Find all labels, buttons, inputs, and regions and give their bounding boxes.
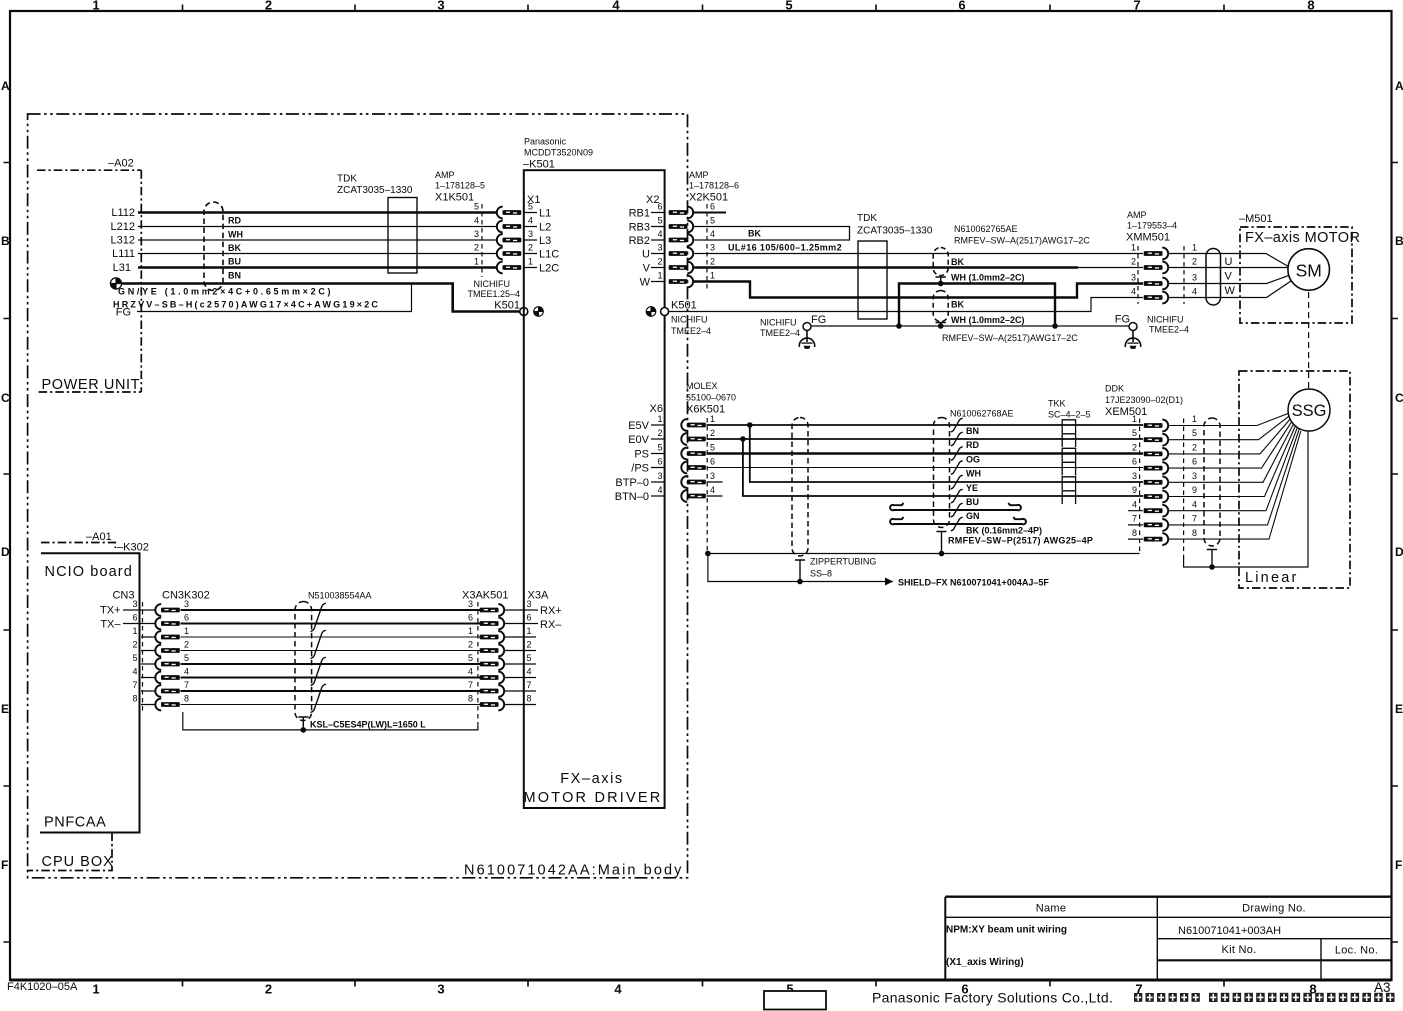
terminal K501 ring left — [520, 308, 528, 316]
connector XEM501 pin contacts — [1144, 420, 1169, 432]
svg-text:2: 2 — [132, 640, 137, 650]
company name japanese (simulated glyph blocks) — [1134, 993, 1395, 1002]
svg-text:4: 4 — [710, 485, 715, 495]
svg-text:5: 5 — [468, 653, 473, 663]
svg-text:N610071042AA:Main body: N610071042AA:Main body — [464, 863, 684, 879]
X6 pin numbers — [657, 414, 662, 495]
junction dot — [301, 727, 307, 733]
svg-text:TDK: TDK — [337, 174, 357, 185]
LAN shield drain — [298, 717, 308, 730]
svg-text:1: 1 — [468, 626, 473, 636]
svg-text:3: 3 — [657, 471, 662, 481]
svg-text:SHIELD–FX N610071041+004AJ–5F: SHIELD–FX N610071041+004AJ–5F — [898, 578, 1049, 588]
svg-text:6: 6 — [468, 613, 473, 623]
svg-text:L3: L3 — [539, 235, 551, 247]
svg-text:DDK: DDK — [1105, 384, 1124, 394]
ground symbol right FG — [1125, 331, 1140, 349]
CN3K302 pin numbers — [184, 599, 189, 704]
svg-text:A3: A3 — [1374, 980, 1391, 995]
connector CN3K302 pin contacts — [155, 604, 180, 616]
svg-text:V: V — [1225, 271, 1233, 283]
svg-text:6: 6 — [710, 457, 715, 467]
svg-text:5: 5 — [710, 216, 715, 226]
svg-text:PNFCAA: PNFCAA — [44, 815, 106, 831]
svg-text:8: 8 — [1192, 528, 1197, 538]
wire L312 — [138, 239, 497, 241]
wire GN/YE earth — [122, 284, 523, 312]
svg-text:HRZVV–SB–H(c2570)AWG17×4C+AWG1: HRZVV–SB–H(c2570)AWG17×4C+AWG19×2C — [113, 300, 380, 310]
svg-text:SM: SM — [1296, 261, 1322, 281]
svg-text:–A02: –A02 — [108, 158, 134, 170]
bottom small revision box — [764, 991, 826, 1010]
svg-text:8: 8 — [468, 694, 473, 704]
svg-text:SC–4–2–5: SC–4–2–5 — [1048, 410, 1091, 420]
CPU BOX boundary — [28, 833, 112, 871]
svg-text:7: 7 — [1192, 514, 1197, 524]
svg-text:4: 4 — [1192, 287, 1197, 297]
cable shield drain UV — [936, 277, 946, 284]
svg-text:WH (1.0mm2–2C): WH (1.0mm2–2C) — [951, 315, 1025, 325]
svg-text:4: 4 — [527, 667, 532, 677]
svg-text:AMP: AMP — [435, 170, 455, 180]
svg-text:6: 6 — [184, 613, 189, 623]
X6 pin names — [615, 420, 650, 503]
motor cable sheath oval — [1206, 249, 1221, 306]
X3A stubs — [505, 610, 539, 705]
svg-text:2: 2 — [710, 257, 715, 267]
svg-text:3: 3 — [527, 599, 532, 609]
svg-text:Kit No.: Kit No. — [1221, 944, 1256, 956]
svg-text:FG: FG — [811, 314, 826, 326]
X3AK501 pin numbers — [468, 599, 473, 704]
svg-text:F: F — [1395, 858, 1402, 872]
svg-text:5: 5 — [132, 653, 137, 663]
svg-text:E0V: E0V — [628, 434, 649, 446]
LAN wire 8 — [181, 704, 481, 706]
svg-text:L312: L312 — [111, 235, 135, 247]
svg-text:UL#16 105/600–1.25mm2: UL#16 105/600–1.25mm2 — [728, 243, 842, 253]
svg-text:6: 6 — [710, 202, 715, 212]
connector XMM501 boundary right — [1183, 246, 1185, 304]
svg-text:L1: L1 — [539, 208, 551, 220]
svg-text:L31: L31 — [113, 262, 131, 274]
svg-text:BK: BK — [951, 300, 964, 310]
wire BTN-0 stub — [707, 495, 723, 497]
svg-text:2: 2 — [657, 257, 662, 267]
XMM501 pin numbers left — [1131, 243, 1136, 297]
svg-text:–A01: –A01 — [86, 531, 112, 543]
svg-text:7: 7 — [184, 680, 189, 690]
shield link X6K501 to XEM501 — [708, 553, 1140, 555]
svg-text:7: 7 — [468, 680, 473, 690]
svg-text:TMEE2–4: TMEE2–4 — [671, 326, 711, 336]
twisted pair ticks — [311, 603, 326, 712]
svg-text:GN: GN — [966, 511, 980, 521]
connector X3AK501 pin contacts — [480, 604, 505, 616]
X6 pin stubs — [651, 425, 665, 496]
svg-text:17JE23090–02(D1): 17JE23090–02(D1) — [1105, 395, 1183, 405]
X2K501 pin numbers — [710, 202, 715, 281]
junction dot — [740, 436, 746, 442]
svg-text:CPU BOX: CPU BOX — [42, 854, 114, 870]
svg-text:7: 7 — [1132, 514, 1137, 524]
svg-text:U: U — [1225, 256, 1233, 268]
XMM501 pin numbers right — [1192, 243, 1197, 297]
svg-text:L212: L212 — [111, 221, 135, 233]
svg-text:2: 2 — [184, 640, 189, 650]
zone row letters right — [1395, 79, 1403, 872]
svg-text:4: 4 — [528, 216, 533, 226]
svg-text:2: 2 — [468, 640, 473, 650]
LAN wire 7 — [181, 690, 481, 692]
svg-text:9: 9 — [1192, 485, 1197, 495]
svg-text:YE: YE — [966, 483, 978, 493]
svg-text:E: E — [1, 702, 9, 716]
svg-text:BK: BK — [951, 257, 964, 267]
svg-text:55100–0670: 55100–0670 — [686, 393, 736, 403]
X3A pin numbers — [527, 599, 532, 704]
svg-text:AMP: AMP — [1127, 210, 1147, 220]
zone row ticks left — [4, 163, 11, 943]
svg-text:BU: BU — [966, 497, 979, 507]
svg-text:5: 5 — [657, 216, 662, 226]
svg-text:Name: Name — [1036, 903, 1067, 915]
svg-text:2: 2 — [1192, 257, 1197, 267]
motor M501 boundary box — [1240, 227, 1352, 323]
main body boundary box N610071042AA — [28, 114, 688, 878]
svg-text:U: U — [642, 249, 650, 261]
X1 pin numbers and names — [528, 202, 533, 267]
svg-text:4: 4 — [1132, 500, 1137, 510]
svg-text:XEM501: XEM501 — [1105, 406, 1147, 418]
svg-text:8: 8 — [1307, 0, 1314, 13]
wire /PS/WH — [707, 467, 1144, 469]
svg-text:5: 5 — [1132, 428, 1137, 438]
wire from K501 terminal to XMM pin4 — [669, 298, 1143, 312]
svg-text:1: 1 — [657, 271, 662, 281]
svg-text:7: 7 — [527, 680, 532, 690]
svg-text:–K302: –K302 — [117, 542, 149, 554]
svg-text:W: W — [640, 277, 651, 289]
svg-text:F: F — [1, 858, 8, 872]
connector XEM501 boundary left — [1139, 419, 1141, 554]
wire E5V branch to YE — [750, 425, 1143, 482]
linear scale boundary box — [1239, 371, 1350, 588]
motor pigtail wires — [1169, 254, 1289, 267]
svg-text:Loc. No.: Loc. No. — [1335, 945, 1378, 957]
svg-text:4: 4 — [474, 216, 479, 226]
wire W phase — [694, 282, 1144, 298]
block A01 boundary — [41, 543, 115, 549]
svg-text:1: 1 — [1192, 243, 1197, 253]
svg-text:5: 5 — [474, 202, 479, 212]
svg-text:/PS: /PS — [631, 463, 649, 475]
svg-text:X1K501: X1K501 — [435, 192, 474, 204]
junction dot — [938, 323, 944, 329]
svg-text:Panasonic: Panasonic — [524, 137, 567, 147]
svg-text:N510038554AA: N510038554AA — [308, 591, 372, 601]
encoder cable sheath oval — [934, 418, 950, 528]
cable sheath oval W/E cable — [933, 291, 948, 322]
svg-text:3: 3 — [132, 599, 137, 609]
svg-text:2: 2 — [265, 982, 272, 997]
svg-text:FX–axis MOTOR: FX–axis MOTOR — [1245, 230, 1360, 246]
svg-text:Drawing No.: Drawing No. — [1242, 903, 1306, 915]
svg-text:–M501: –M501 — [1239, 213, 1273, 225]
svg-text:BN: BN — [228, 271, 241, 281]
svg-text:RX+: RX+ — [540, 605, 562, 617]
svg-text:D: D — [1, 545, 10, 559]
svg-text:ZCAT3035–1330: ZCAT3035–1330 — [337, 185, 413, 196]
svg-text:L2: L2 — [539, 222, 551, 234]
cable sheath oval UV cable — [933, 248, 948, 276]
svg-text:8: 8 — [1132, 528, 1137, 538]
zone column ticks bottom — [183, 980, 1225, 987]
svg-text:RB1: RB1 — [629, 208, 650, 220]
ferrite core TDK ZCAT3035-1330 — [388, 198, 417, 274]
CN3 pin numbers — [132, 599, 137, 704]
LAN wire 4 — [181, 677, 481, 679]
svg-text:Linear: Linear — [1245, 570, 1299, 586]
protective earth symbol right of X2 — [646, 307, 656, 317]
junction dot — [896, 323, 902, 329]
wire FG from power unit — [137, 284, 412, 312]
svg-text:TX+: TX+ — [100, 605, 120, 617]
title block — [945, 897, 1391, 980]
LAN wire 2 — [181, 650, 481, 652]
svg-text:NICHIFU: NICHIFU — [474, 279, 511, 289]
svg-text:2: 2 — [265, 0, 272, 13]
connector X1K501 pin contacts — [497, 207, 522, 219]
svg-text:X6K501: X6K501 — [686, 404, 725, 416]
svg-text:L2C: L2C — [539, 263, 559, 275]
wire BTP-0 stub — [707, 481, 723, 483]
svg-text:4: 4 — [614, 982, 622, 997]
svg-text:1: 1 — [527, 626, 532, 636]
svg-text:N610071041+003AH: N610071041+003AH — [1178, 925, 1281, 937]
svg-text:SS–8: SS–8 — [810, 569, 832, 579]
svg-text:2: 2 — [474, 243, 479, 253]
zone row letters left — [1, 79, 10, 872]
svg-text:2: 2 — [527, 640, 532, 650]
svg-text:ZCAT3035–1330: ZCAT3035–1330 — [857, 226, 933, 237]
svg-text:2: 2 — [710, 428, 715, 438]
motor driver K501 box — [524, 170, 665, 808]
encoder pigtail wires fan to SSG — [1169, 414, 1301, 540]
zone column numbers bottom — [92, 982, 1316, 997]
wire BK jumper RB3-RB2 — [694, 227, 850, 241]
junction dot — [939, 551, 945, 557]
svg-text:7: 7 — [1133, 0, 1140, 13]
svg-text:BK: BK — [748, 229, 761, 239]
connector X3AK501 boundary — [477, 602, 479, 723]
svg-text:WH: WH — [966, 469, 981, 479]
svg-text:E: E — [1395, 702, 1403, 716]
svg-text:V: V — [643, 263, 651, 275]
svg-text:W: W — [1225, 285, 1236, 297]
svg-text:AMP: AMP — [689, 170, 709, 180]
svg-text:2: 2 — [1132, 443, 1137, 453]
svg-text:2: 2 — [657, 428, 662, 438]
svg-text:A: A — [1, 79, 10, 93]
svg-text:TMEE1.25–4: TMEE1.25–4 — [467, 289, 520, 299]
splice sleeves — [1062, 420, 1075, 504]
junction dot — [747, 422, 753, 428]
LAN wire 1 — [181, 636, 481, 638]
svg-text:MCDDT3520N09: MCDDT3520N09 — [524, 148, 593, 158]
motor-encoder coupling dashed — [1308, 292, 1310, 388]
svg-text:3: 3 — [657, 243, 662, 253]
ferrite core TDK ZCAT3035-1330 (motor lines) — [858, 241, 887, 319]
svg-text:3: 3 — [710, 471, 715, 481]
svg-text:NCIO board: NCIO board — [45, 564, 133, 580]
terminal K501 ring right — [661, 308, 669, 316]
svg-text:KSL–C5ES4P(LW)L=1650 L: KSL–C5ES4P(LW)L=1650 L — [310, 720, 426, 730]
protective earth symbol inside driver left — [534, 307, 544, 317]
svg-text:5: 5 — [710, 443, 715, 453]
wire FG bridge — [899, 284, 1055, 327]
cable sheath oval power cable — [204, 202, 223, 291]
svg-text:WH (1.0mm2–2C): WH (1.0mm2–2C) — [951, 273, 1025, 283]
svg-text:BU: BU — [228, 257, 241, 267]
connector X2K501 boundary — [706, 204, 708, 291]
svg-text:MOLEX: MOLEX — [686, 381, 718, 391]
svg-text:1: 1 — [92, 0, 99, 13]
shield drop wire — [708, 554, 893, 582]
encoder cable drain — [937, 532, 947, 554]
wire L31 — [138, 266, 497, 269]
svg-text:L1C: L1C — [539, 249, 559, 261]
svg-text:RMFEV–SW–P(2517) AWG25–4P: RMFEV–SW–P(2517) AWG25–4P — [948, 536, 1093, 546]
svg-text:4: 4 — [468, 667, 473, 677]
svg-text:TDK: TDK — [857, 213, 877, 224]
svg-text:3: 3 — [710, 243, 715, 253]
X2 pin numbers inside driver — [657, 202, 662, 281]
svg-text:1: 1 — [1192, 414, 1197, 424]
svg-text:K501: K501 — [494, 300, 520, 312]
svg-text:OG: OG — [966, 455, 980, 465]
svg-text:RD: RD — [966, 440, 979, 450]
svg-text:RD: RD — [228, 216, 241, 226]
svg-text:9: 9 — [1132, 485, 1137, 495]
svg-text:FX–axis: FX–axis — [560, 771, 624, 787]
svg-text:4: 4 — [132, 667, 137, 677]
encoder SSG — [1288, 389, 1330, 431]
svg-text:CN3: CN3 — [112, 590, 134, 602]
svg-text:1–178128–5: 1–178128–5 — [435, 181, 485, 191]
svg-text:RMFEV–SW–A(2517)AWG17–2C: RMFEV–SW–A(2517)AWG17–2C — [954, 236, 1090, 246]
wire PS/OG — [707, 452, 1144, 454]
svg-text:4: 4 — [710, 229, 715, 239]
svg-text:5: 5 — [527, 653, 532, 663]
svg-text:3: 3 — [1132, 471, 1137, 481]
connector XEM501 boundary right — [1183, 419, 1185, 561]
zone row ticks right — [1392, 163, 1399, 943]
svg-text:4: 4 — [184, 667, 189, 677]
wire RB1 stub — [694, 212, 727, 214]
pigtail oval drain — [1207, 550, 1217, 568]
power unit A02 boundary — [37, 170, 141, 392]
LAN wire 6 — [181, 623, 481, 625]
X1 pin stubs — [524, 213, 537, 268]
svg-text:8: 8 — [527, 694, 532, 704]
svg-text:F4K1020–05A: F4K1020–05A — [7, 981, 78, 993]
protective earth symbol at power unit — [110, 278, 121, 289]
svg-text:BK (0.16mm2–4P): BK (0.16mm2–4P) — [966, 526, 1042, 536]
zipper tubing drain — [795, 560, 805, 582]
wire L212 — [138, 226, 497, 228]
svg-text:POWER UNIT: POWER UNIT — [42, 377, 141, 393]
svg-text:TMEE2–4: TMEE2–4 — [1149, 325, 1189, 335]
LAN wire 3 — [181, 609, 481, 611]
junction dot — [938, 281, 944, 287]
svg-text:L112: L112 — [111, 207, 135, 219]
zone column numbers top — [92, 0, 1314, 13]
svg-text:C: C — [1395, 391, 1403, 405]
svg-text:1: 1 — [1132, 414, 1137, 424]
svg-text:1: 1 — [92, 982, 99, 997]
svg-text:SSG: SSG — [1292, 402, 1327, 420]
X2 pin names RB1 RB3 RB2 U V W — [629, 208, 651, 289]
CN3 stubs — [123, 610, 155, 705]
svg-text:FG: FG — [1115, 314, 1130, 326]
svg-text:L111: L111 — [112, 248, 135, 260]
svg-text:Panasonic Factory Solutions: Panasonic Factory Solutions Co.,Ltd. — [872, 990, 1113, 1006]
svg-text:4: 4 — [612, 0, 620, 13]
svg-text:8: 8 — [132, 694, 137, 704]
svg-text:PS: PS — [634, 449, 649, 461]
X6K501 pin numbers — [710, 414, 715, 495]
svg-text:1: 1 — [1131, 243, 1136, 253]
wire U phase — [694, 253, 1144, 255]
svg-text:6: 6 — [132, 613, 137, 623]
connector X2K501 pin contacts — [669, 207, 694, 219]
svg-text:D: D — [1395, 545, 1403, 559]
junction dot — [1052, 323, 1058, 329]
svg-text:(X1_axis Wiring): (X1_axis Wiring) — [946, 957, 1024, 968]
spare wire GN with hooked ends — [890, 503, 1021, 510]
svg-text:2: 2 — [1192, 443, 1197, 453]
connector CN3K302 boundary — [142, 602, 144, 712]
wire E0V branch to BU — [743, 439, 1143, 496]
svg-text:NICHIFU: NICHIFU — [671, 315, 708, 325]
svg-text:1: 1 — [184, 626, 189, 636]
svg-text:N610062768AE: N610062768AE — [950, 409, 1014, 419]
svg-text:–K501: –K501 — [523, 159, 555, 171]
svg-text:NPM:XY beam unit wiring: NPM:XY beam unit wiring — [946, 925, 1067, 936]
svg-text:3: 3 — [528, 229, 533, 239]
svg-text:NICHIFU: NICHIFU — [1147, 315, 1184, 325]
junction dot — [705, 551, 711, 557]
svg-text:7: 7 — [132, 680, 137, 690]
svg-text:1: 1 — [657, 414, 662, 424]
svg-text:GN/YE (1.0mm2×4C+0.65mm×2C): GN/YE (1.0mm2×4C+0.65mm×2C) — [118, 287, 333, 297]
wire V phase — [694, 266, 1079, 268]
ground symbol left FG — [799, 331, 814, 349]
encoder shield to SSG — [1184, 432, 1308, 568]
svg-text:6: 6 — [527, 613, 532, 623]
svg-text:3: 3 — [184, 599, 189, 609]
svg-text:BK: BK — [228, 243, 241, 253]
svg-text:1–179553–4: 1–179553–4 — [1127, 221, 1177, 231]
XEM501 pin stubs — [1128, 511, 1143, 539]
svg-text:8: 8 — [184, 694, 189, 704]
conductor ticks — [951, 418, 963, 530]
LAN wire 5 — [181, 663, 481, 665]
svg-text:3: 3 — [1192, 471, 1197, 481]
svg-text:3: 3 — [437, 982, 444, 997]
svg-text:1: 1 — [132, 626, 137, 636]
